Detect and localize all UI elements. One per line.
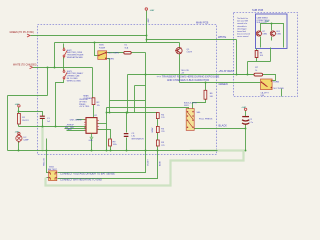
svg-text:270: 270: [161, 145, 164, 147]
svg-text:SW1: SW1: [184, 105, 190, 107]
svg-text:BLUE: BLUE: [159, 160, 161, 166]
svg-text:D882: D882: [277, 34, 282, 36]
svg-text:YELLOW: YELLOW: [181, 70, 189, 72]
svg-text:4.7u: 4.7u: [249, 122, 253, 124]
svg-text:YELLOW: YELLOW: [44, 158, 46, 166]
svg-text:220: 220: [161, 131, 164, 133]
svg-text:PHOTO: PHOTO: [22, 120, 29, 122]
svg-text:SW2: SW2: [67, 50, 73, 52]
svg-text:UNIT_SENSE: UNIT_SENSE: [70, 119, 83, 121]
svg-text:D66: D66: [261, 95, 264, 97]
svg-text:GREEN (TO PC-SYNC): GREEN (TO PC-SYNC): [10, 32, 35, 34]
svg-text:1.8u: 1.8u: [131, 136, 135, 138]
svg-text:CONNECTED IN: CONNECTED IN: [257, 20, 271, 22]
svg-text:SW4: SW4: [49, 166, 55, 168]
svg-text:BE CLOSED: BE CLOSED: [67, 78, 78, 80]
svg-text:WHEN CLOSED: WHEN CLOSED: [67, 80, 82, 82]
svg-text:120k: 120k: [113, 144, 117, 146]
svg-text:known flash: known flash: [237, 31, 246, 33]
svg-text:NO TURN: NO TURN: [274, 88, 284, 90]
svg-text:GND: GND: [89, 140, 94, 142]
svg-text:PRESS: PRESS: [79, 104, 86, 106]
svg-text:560: 560: [210, 96, 213, 98]
svg-text:120: 120: [161, 117, 164, 119]
svg-text:NO_TURN: NO_TURN: [108, 53, 119, 55]
svg-text:B55: B55: [277, 31, 280, 33]
svg-text:1k: 1k: [255, 70, 257, 72]
svg-text:BULB+X,DPST: BULB+X,DPST: [184, 102, 198, 104]
svg-text:-PWRUP: -PWRUP: [66, 124, 74, 126]
svg-text:SW3: SW3: [67, 71, 73, 73]
svg-text:SUB COLOR: SUB COLOR: [257, 22, 268, 24]
svg-text:12k: 12k: [97, 105, 100, 107]
svg-text:TURN: TURN: [273, 81, 279, 83]
svg-text:C3279: C3279: [187, 51, 193, 53]
svg-text:100: 100: [260, 55, 263, 57]
svg-text:D882: D882: [263, 34, 268, 36]
svg-text:SW5: SW5: [99, 45, 105, 47]
svg-text:+5V & TRIG: +5V & TRIG: [79, 106, 90, 108]
svg-text:ON EDGE: ON EDGE: [79, 99, 88, 101]
svg-text:FULL PRESS: FULL PRESS: [199, 118, 213, 120]
svg-text:TURN: TURN: [108, 58, 114, 60]
svg-text:1u5: 1u5: [47, 121, 50, 123]
svg-text:R8: R8: [260, 52, 262, 54]
svg-text:VIOLET: VIOLET: [147, 158, 149, 166]
svg-text:B7: B7: [263, 31, 265, 33]
svg-text:SHUTTER_OPEN: SHUTTER_OPEN: [67, 52, 83, 54]
